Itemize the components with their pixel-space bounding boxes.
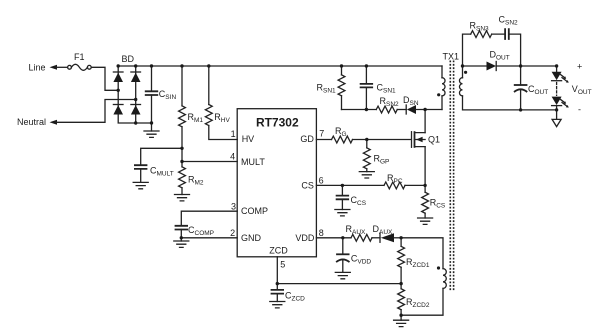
svg-text:3: 3 (231, 201, 236, 211)
svg-text:RT7302: RT7302 (256, 116, 299, 130)
svg-text:5: 5 (280, 260, 285, 270)
svg-text:2: 2 (230, 228, 235, 238)
svg-text:GD: GD (300, 134, 314, 144)
svg-text:F1: F1 (74, 52, 85, 62)
svg-text:Neutral: Neutral (17, 117, 46, 127)
svg-text:HV: HV (242, 134, 255, 144)
svg-text:TX1: TX1 (443, 51, 460, 61)
svg-text:6: 6 (319, 176, 324, 186)
svg-text:COMP: COMP (241, 206, 268, 216)
svg-text:ZCD: ZCD (269, 245, 288, 255)
svg-text:Line: Line (29, 63, 46, 73)
svg-text:-: - (578, 104, 581, 114)
svg-text:MULT: MULT (241, 157, 265, 167)
svg-text:Q1: Q1 (428, 135, 440, 145)
svg-text:8: 8 (319, 228, 324, 238)
svg-text:1: 1 (231, 129, 236, 139)
svg-text:GND: GND (241, 233, 262, 243)
svg-text:7: 7 (319, 129, 324, 139)
svg-text:+: + (577, 62, 582, 72)
svg-text:VDD: VDD (295, 233, 315, 243)
svg-text:CS: CS (301, 180, 314, 190)
svg-text:BD: BD (122, 54, 135, 64)
svg-text:4: 4 (230, 152, 235, 162)
